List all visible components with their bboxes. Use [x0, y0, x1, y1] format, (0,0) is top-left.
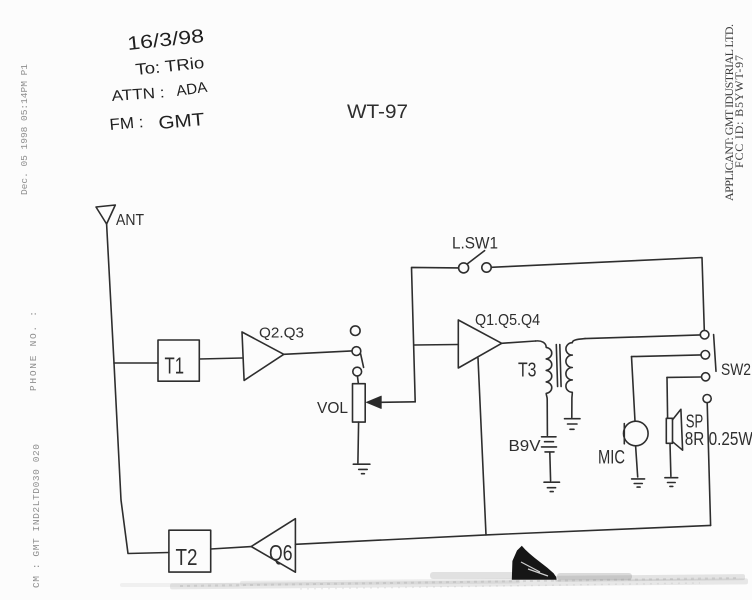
svg-text:ANT: ANT — [116, 212, 144, 229]
svg-text:Q2.Q3: Q2.Q3 — [259, 325, 304, 342]
svg-text:MIC: MIC — [598, 447, 625, 468]
svg-text:L.SW1: L.SW1 — [452, 233, 498, 252]
svg-text:WT-97: WT-97 — [347, 102, 408, 123]
svg-text:VOL: VOL — [317, 400, 348, 417]
svg-text:T3: T3 — [518, 360, 537, 382]
svg-text:ADA: ADA — [175, 79, 208, 100]
svg-text:FCC ID: B5YWT-97: FCC ID: B5YWT-97 — [732, 55, 746, 168]
svg-text:Q1.Q5.Q4: Q1.Q5.Q4 — [475, 312, 540, 329]
svg-text:SW2: SW2 — [721, 360, 751, 379]
svg-text:T2: T2 — [176, 544, 198, 570]
svg-text:CM : GMT IND2LTD030 020: CM : GMT IND2LTD030 020 — [31, 444, 42, 588]
svg-text:Q6: Q6 — [269, 540, 293, 565]
svg-text:GMT: GMT — [158, 109, 206, 133]
svg-text:8R 0.25W: 8R 0.25W — [685, 429, 752, 449]
svg-text:FM :: FM : — [109, 114, 144, 134]
svg-text:PHONE NO. :: PHONE NO. : — [28, 311, 39, 391]
svg-text:B9V: B9V — [509, 438, 541, 455]
svg-text:T1: T1 — [165, 353, 185, 379]
svg-text:ATTN :: ATTN : — [111, 84, 165, 105]
svg-text:To: TRio: To: TRio — [135, 55, 206, 79]
svg-text:16/3/98: 16/3/98 — [126, 26, 205, 55]
svg-text:Dec. 05 1998 05:14PM P1: Dec. 05 1998 05:14PM P1 — [19, 64, 30, 195]
